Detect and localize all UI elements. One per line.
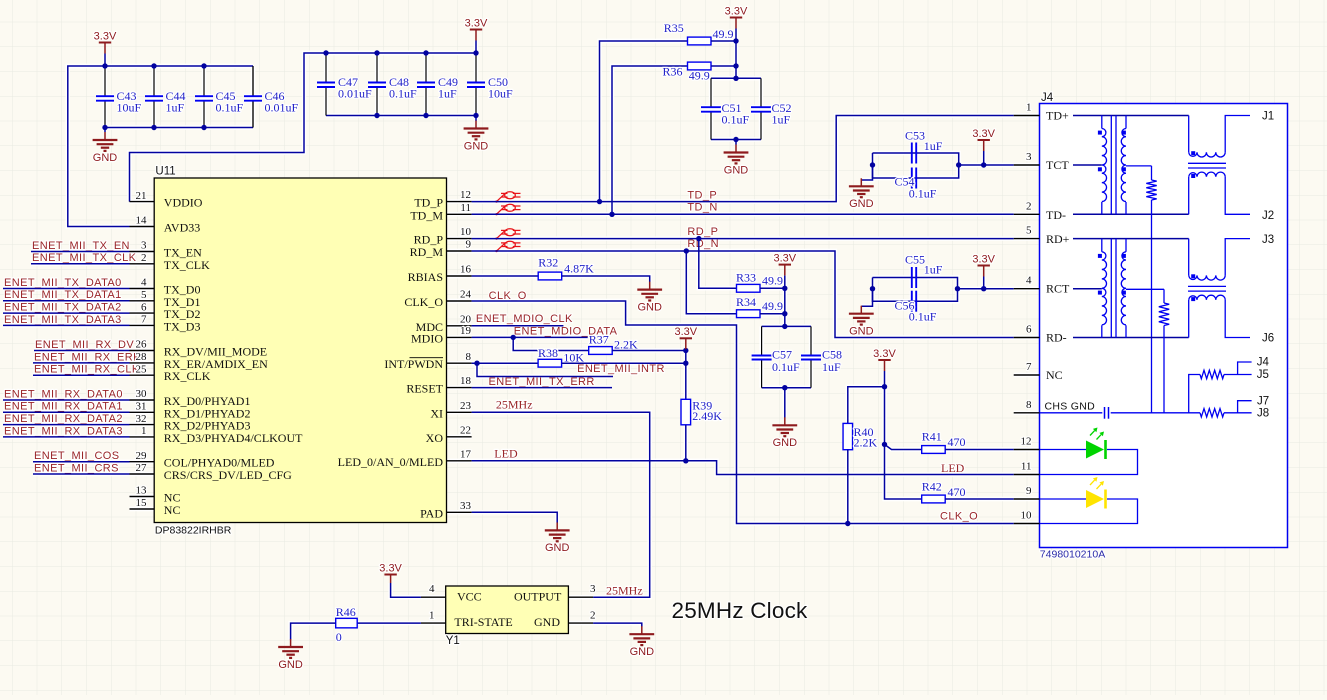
- svg-text:3: 3: [1026, 151, 1032, 163]
- choke L2 (RD) windings: [1188, 239, 1190, 276]
- U11 pin 5 TX_D1: [130, 300, 155, 302]
- svg-text:ENET_MII_TX_ERR: ENET_MII_TX_ERR: [489, 376, 595, 388]
- wire R36 right: [711, 65, 736, 67]
- Y1 pin 4 VCC: [421, 596, 446, 598]
- svg-text:5: 5: [1026, 225, 1032, 237]
- U11 pin 10 RD_P: [447, 238, 472, 240]
- J4 pin 3 stub: [1014, 164, 1040, 166]
- capacitor CHS GND internal: [1040, 412, 1102, 414]
- svg-text:0: 0: [336, 630, 342, 644]
- svg-text:1uF: 1uF: [166, 101, 185, 115]
- svg-text:TCT: TCT: [1046, 158, 1069, 172]
- Y1 pin 3 OUTPUT: [568, 596, 593, 598]
- svg-text:2: 2: [1026, 200, 1032, 212]
- svg-text:ENET_MII_RX_DATA2: ENET_MII_RX_DATA2: [4, 413, 123, 425]
- capacitor C56: [911, 291, 913, 312]
- U11 pin 25 RX_CLK: [130, 374, 155, 376]
- transformer T2 secondary winding: [1125, 239, 1127, 252]
- wire C53/C54 loop: [873, 153, 959, 178]
- svg-text:20: 20: [460, 313, 472, 325]
- svg-text:ENET_MII_RX_DATA3: ENET_MII_RX_DATA3: [4, 425, 123, 437]
- svg-text:8: 8: [1026, 399, 1032, 411]
- wire RD termination to CHS GND: [1163, 326, 1165, 413]
- wire TCT internal: [1073, 164, 1102, 166]
- wire 3.3V node to R40 top: [848, 387, 885, 424]
- U11 pin 20 MDC: [447, 325, 472, 327]
- wire ENET_MDIO_CLK: [472, 325, 564, 327]
- svg-text:25MHz Clock: 25MHz Clock: [672, 598, 809, 623]
- svg-text:R34: R34: [736, 295, 756, 309]
- LED D2 yellow: [1040, 498, 1087, 500]
- wire branch to J7: [1238, 401, 1252, 413]
- svg-text:J2: J2: [1262, 210, 1274, 222]
- wire pin8 to R38: [472, 362, 538, 364]
- svg-text:GND: GND: [534, 615, 560, 629]
- svg-text:TD_M: TD_M: [410, 208, 443, 222]
- svg-text:17: 17: [460, 448, 472, 460]
- svg-text:INT/PWDN: INT/PWDN: [384, 357, 443, 371]
- wire R36 left to TD_N: [612, 66, 688, 214]
- svg-text:GND: GND: [93, 152, 118, 164]
- differential-pair directive marker: [495, 229, 520, 240]
- svg-text:25MHz: 25MHz: [496, 398, 533, 412]
- svg-text:GND: GND: [464, 140, 489, 152]
- Y1 pin 1 TRI-STATE: [421, 622, 446, 624]
- choke L1 (TD) windings: [1188, 116, 1190, 153]
- wire node down to R39: [685, 351, 687, 400]
- U11 pin 17 LED_0/AN_0/MLED: [447, 460, 472, 462]
- svg-text:ENET_MII_RX_CLK: ENET_MII_RX_CLK: [34, 364, 140, 376]
- U11 pin 12 TD_P: [447, 201, 472, 203]
- svg-text:PAD: PAD: [420, 506, 443, 520]
- capacitor C43: [104, 66, 106, 96]
- wire 3.3V node down to C51/C52: [735, 41, 737, 78]
- svg-text:TX_CLK: TX_CLK: [164, 258, 210, 272]
- svg-text:10: 10: [460, 226, 472, 238]
- LED D1 green: [1040, 449, 1087, 451]
- svg-text:LED_0/AN_0/MLED: LED_0/AN_0/MLED: [338, 455, 444, 469]
- op-amp U11 DP83822IRHBR body: [154, 178, 446, 523]
- svg-text:R38: R38: [538, 346, 558, 360]
- svg-text:RBIAS: RBIAS: [408, 270, 443, 284]
- wire R38 right: [562, 362, 686, 364]
- svg-text:10uF: 10uF: [488, 87, 513, 101]
- U11 pin 6 TX_D2: [130, 312, 155, 314]
- wire - C43 bank bottom bus: [105, 127, 253, 129]
- wire RESET: [472, 387, 612, 389]
- power 3.3V at C50: [470, 29, 482, 31]
- resistor R39: [681, 399, 691, 425]
- transformer T1 primary winding: [1101, 116, 1103, 129]
- svg-text:TRI-STATE: TRI-STATE: [454, 615, 512, 629]
- svg-text:ENET_MII_COS: ENET_MII_COS: [34, 450, 120, 462]
- U11 pin 33 PAD: [447, 511, 472, 513]
- wire LED net (U11 pin17 to J4 pin11): [472, 461, 1014, 475]
- wire Y1 pin2 to GND: [593, 623, 642, 626]
- resistor R33: [737, 284, 761, 292]
- svg-text:4: 4: [429, 583, 435, 595]
- U11 pin 32 RX_D2/PHYAD3: [130, 424, 155, 426]
- svg-text:1uF: 1uF: [822, 360, 841, 374]
- wire Y1 VCC to 3.3V: [391, 583, 421, 597]
- capacitor C54: [911, 168, 913, 189]
- junction dots C55 block: [870, 286, 875, 291]
- svg-text:GND: GND: [545, 542, 570, 554]
- capacitor C50: [475, 53, 477, 83]
- wire RCT internal: [1073, 288, 1102, 290]
- svg-text:AVD33: AVD33: [164, 221, 200, 235]
- svg-text:J4: J4: [1257, 357, 1270, 369]
- svg-text:13: 13: [136, 485, 148, 497]
- svg-text:470: 470: [948, 435, 966, 449]
- svg-text:RCT: RCT: [1046, 282, 1070, 296]
- svg-text:RX_D3/PHYAD4/CLKOUT: RX_D3/PHYAD4/CLKOUT: [164, 431, 303, 445]
- ground GND below C43: [104, 128, 106, 133]
- wire RD_P branch to R33: [699, 239, 737, 289]
- wire + net label ENET_MII_RX_ERR: [33, 362, 130, 364]
- power 3.3V at RCT: [978, 265, 990, 267]
- U11 pin 23 XI: [447, 411, 472, 413]
- svg-text:VDDIO: VDDIO: [164, 196, 203, 210]
- svg-text:ENET_MII_TX_CLK: ENET_MII_TX_CLK: [32, 252, 137, 264]
- wire + net label ENET_MII_RX_DATA1: [3, 411, 130, 413]
- svg-text:XI: XI: [430, 406, 443, 420]
- svg-text:GND: GND: [630, 646, 655, 658]
- capacitor C47: [325, 53, 327, 83]
- wire RD_P net (U11 pin10 to J4 pin5): [472, 238, 1014, 240]
- svg-text:R46: R46: [336, 605, 356, 619]
- svg-text:VCC: VCC: [457, 589, 482, 603]
- svg-text:ENET_MII_RX_ERR: ENET_MII_RX_ERR: [34, 351, 141, 363]
- svg-text:49.9: 49.9: [762, 274, 783, 288]
- svg-text:R35: R35: [664, 21, 684, 35]
- wire J4/J5 network drop: [1189, 375, 1200, 413]
- svg-text:3.3V: 3.3V: [94, 30, 117, 42]
- U11 pin 30 RX_D0/PHYAD1: [130, 399, 155, 401]
- svg-text:1uF: 1uF: [924, 139, 943, 153]
- wire diagonal to R41: [885, 444, 922, 449]
- svg-text:1uF: 1uF: [772, 113, 791, 127]
- svg-text:49.9: 49.9: [762, 299, 783, 313]
- svg-text:RD-: RD-: [1046, 331, 1067, 345]
- wire RD+ internal: [1073, 238, 1189, 240]
- wire C57/C58 bottom bus: [762, 387, 811, 389]
- power 3.3V at R33/R34: [779, 264, 791, 266]
- svg-text:31: 31: [136, 401, 147, 413]
- resistor R34: [737, 310, 761, 318]
- resistor R37: [589, 347, 613, 355]
- svg-text:0.1uF: 0.1uF: [772, 360, 800, 374]
- svg-text:19: 19: [460, 325, 472, 337]
- svg-text:9: 9: [1026, 485, 1032, 497]
- svg-text:16: 16: [460, 264, 472, 276]
- wire R39 bottom to LED net: [685, 425, 687, 461]
- wire C55/C56 loop: [873, 278, 958, 302]
- svg-text:RD_P: RD_P: [687, 226, 718, 238]
- capacitor C49: [425, 53, 427, 83]
- J4 pin 12 stub: [1014, 449, 1040, 451]
- svg-text:7498010210A: 7498010210A: [1040, 549, 1105, 561]
- svg-text:6: 6: [141, 301, 147, 313]
- svg-text:TD_N: TD_N: [687, 202, 717, 214]
- wire RCT to J4 pin4: [958, 288, 1014, 290]
- wire R40 bottom to CLK_O: [847, 450, 849, 524]
- resistor R41: [922, 446, 946, 454]
- wire + net label ENET_MII_RX_DATA0: [3, 399, 130, 401]
- junction dots R35/R36 node: [733, 38, 738, 43]
- ground GND at PAD: [545, 522, 570, 541]
- svg-text:CRS/CRS_DV/LED_CFG: CRS/CRS_DV/LED_CFG: [164, 468, 292, 482]
- svg-text:R36: R36: [663, 65, 683, 79]
- ground GND at Y1 pin2: [629, 626, 654, 645]
- capacitor C58: [810, 326, 812, 355]
- transformer T2 core: [1110, 239, 1112, 338]
- resistor R36: [688, 62, 712, 70]
- U11 pin 11 TD_M: [447, 213, 472, 215]
- U11 pin 14 AVD33: [130, 226, 155, 228]
- wire RBIAS to R32: [472, 275, 539, 277]
- capacitor C45: [203, 66, 205, 96]
- wire C57/C58 top bus: [762, 325, 811, 327]
- transformer T1 secondary winding: [1125, 116, 1127, 129]
- svg-text:OUTPUT: OUTPUT: [514, 589, 562, 603]
- svg-text:11: 11: [1021, 461, 1032, 473]
- svg-text:RESET: RESET: [406, 382, 443, 396]
- J4 pin 10 stub: [1014, 523, 1040, 525]
- svg-text:CLK_O: CLK_O: [940, 511, 978, 523]
- wire - 3.3V rail to C43-C46 bank and AVD33: [68, 66, 253, 227]
- svg-text:10uF: 10uF: [117, 101, 142, 115]
- svg-text:TD-: TD-: [1046, 208, 1066, 222]
- svg-text:1: 1: [141, 425, 147, 437]
- svg-text:GND: GND: [278, 659, 303, 671]
- wire - C47-C50 top bus and left drop to VDDIO: [130, 53, 477, 202]
- svg-text:GND: GND: [773, 437, 798, 449]
- svg-text:0.1uF: 0.1uF: [909, 187, 937, 201]
- wire + net label ENET_MII_TX_DATA2: [3, 312, 130, 314]
- svg-text:J1: J1: [1262, 111, 1274, 123]
- differential-pair directive marker: [495, 204, 520, 215]
- U11 pin 18 RESET: [447, 387, 472, 389]
- resistor R32: [538, 272, 562, 280]
- U11 pin 3 TX_EN: [130, 251, 155, 253]
- svg-text:470: 470: [948, 485, 966, 499]
- svg-text:0.01uF: 0.01uF: [265, 101, 299, 115]
- resistor J7/J8 network: [1200, 409, 1224, 417]
- svg-text:3.3V: 3.3V: [773, 252, 796, 264]
- svg-text:1: 1: [429, 609, 435, 621]
- wire TD termination to CHS GND: [1151, 200, 1153, 413]
- svg-text:7: 7: [1026, 361, 1032, 373]
- J4 pin 4 stub: [1014, 288, 1040, 290]
- capacitor C51: [710, 78, 712, 107]
- differential-pair directive marker: [495, 241, 520, 252]
- wire TD_P net (U11 pin12 to J4 pin1): [472, 116, 1014, 202]
- svg-text:J6: J6: [1262, 333, 1274, 345]
- wire TD+ internal: [1073, 115, 1189, 117]
- oscillator Y1 body: [446, 586, 569, 634]
- J4 pin 8 stub: [1014, 412, 1040, 414]
- ground GND at C53/C54: [861, 165, 872, 180]
- svg-text:49.9: 49.9: [689, 69, 710, 83]
- svg-text:25MHz: 25MHz: [606, 584, 643, 598]
- wire RD_N net (U11 pin9 to J4 pin6): [472, 251, 1014, 338]
- wire ENET_MII_INTR stub: [477, 363, 613, 376]
- svg-text:6: 6: [1026, 324, 1032, 336]
- U11 pin 7 TX_D3: [130, 324, 155, 326]
- wire TD_N net (U11 pin11 to J4 pin2): [472, 213, 1014, 215]
- svg-text:TD+: TD+: [1046, 109, 1069, 123]
- svg-text:7: 7: [141, 314, 147, 326]
- capacitor C57: [761, 326, 763, 355]
- svg-text:XO: XO: [426, 431, 444, 445]
- resistor R46: [336, 618, 358, 628]
- svg-text:R41: R41: [922, 430, 942, 444]
- svg-text:0.1uF: 0.1uF: [216, 101, 244, 115]
- ground GND below C51/C52: [735, 140, 737, 145]
- wire C51/C52 bottom bus: [711, 139, 761, 141]
- ground GND at C55/C56: [861, 289, 872, 307]
- svg-text:CHS GND: CHS GND: [1045, 401, 1096, 413]
- U11 pin 27 CRS/CRS_DV/LED_CFG: [130, 473, 155, 475]
- svg-text:4: 4: [1026, 275, 1032, 287]
- capacitor C44: [153, 66, 155, 96]
- U11 pin 9 RD_M: [447, 250, 472, 252]
- net label layer: [4, 189, 978, 597]
- svg-text:ENET_MII_INTR: ENET_MII_INTR: [577, 363, 665, 375]
- capacitor C48: [376, 53, 378, 83]
- svg-text:29: 29: [136, 450, 148, 462]
- J4 pin 6 stub: [1014, 337, 1040, 339]
- svg-text:ENET_MII_CRS: ENET_MII_CRS: [34, 462, 119, 474]
- svg-text:3.3V: 3.3V: [972, 253, 995, 265]
- wire C51/C52 top bus: [711, 77, 761, 79]
- wire MDIO: [472, 336, 588, 338]
- svg-text:2: 2: [141, 252, 147, 264]
- wire - C47 bank bottom bus: [326, 115, 476, 117]
- svg-text:ENET_MDIO_CLK: ENET_MDIO_CLK: [476, 313, 573, 325]
- wire R37 right: [612, 350, 686, 352]
- svg-text:24: 24: [460, 289, 472, 301]
- transformer T2 primary winding: [1101, 239, 1103, 252]
- svg-text:3.3V: 3.3V: [379, 562, 402, 574]
- U11 pin 15 NC: [130, 508, 155, 510]
- power 3.3V at TCT: [978, 139, 990, 141]
- svg-text:2: 2: [590, 609, 596, 621]
- svg-text:1: 1: [1026, 102, 1032, 114]
- svg-text:NC: NC: [1046, 368, 1063, 382]
- power 3.3V at Y1: [384, 574, 396, 576]
- wire RD_N branch to R34: [686, 251, 736, 314]
- ground GND below C57/C58: [784, 388, 786, 418]
- svg-text:R37: R37: [589, 333, 609, 347]
- svg-text:25: 25: [136, 363, 148, 375]
- svg-text:3.3V: 3.3V: [465, 17, 488, 29]
- svg-text:TX_D3: TX_D3: [164, 319, 201, 333]
- wire down to R42: [885, 444, 922, 499]
- svg-text:3: 3: [590, 583, 596, 595]
- svg-text:R33: R33: [736, 270, 756, 284]
- wire R41 to J4 pin12: [945, 449, 1014, 451]
- svg-text:0.01uF: 0.01uF: [338, 87, 372, 101]
- svg-text:GND: GND: [724, 164, 749, 176]
- transformer T1 core: [1110, 116, 1112, 215]
- svg-text:LED: LED: [941, 461, 965, 475]
- svg-text:32: 32: [136, 413, 147, 425]
- svg-text:DP83822IRHBR: DP83822IRHBR: [155, 524, 232, 536]
- svg-text:2.2K: 2.2K: [854, 435, 878, 449]
- U11 pin 1 RX_D3/PHYAD4/CLKOUT: [130, 436, 155, 438]
- ground GND at R46: [278, 639, 303, 658]
- svg-text:15: 15: [136, 497, 148, 509]
- svg-text:J7: J7: [1257, 396, 1269, 408]
- resistor R38: [538, 359, 562, 367]
- svg-text:ENET_MII_TX_DATA2: ENET_MII_TX_DATA2: [4, 302, 122, 314]
- ground GND below C50: [475, 116, 477, 122]
- svg-text:12: 12: [460, 189, 471, 201]
- svg-text:ENET_MII_RX_DATA0: ENET_MII_RX_DATA0: [4, 388, 123, 400]
- svg-text:RD+: RD+: [1046, 232, 1070, 246]
- svg-text:ENET_MII_RX_DATA1: ENET_MII_RX_DATA1: [4, 401, 123, 413]
- U11 pin 22 XO: [447, 436, 472, 438]
- differential-pair directive marker: [495, 192, 520, 203]
- junction dots C53 block: [870, 162, 875, 167]
- svg-text:MDIO: MDIO: [411, 331, 443, 345]
- capacitor C55: [911, 267, 913, 288]
- svg-text:ENET_MII_TX_DATA0: ENET_MII_TX_DATA0: [4, 277, 122, 289]
- wire MDIO branch to R37: [513, 337, 589, 350]
- svg-text:TD_P: TD_P: [687, 189, 717, 201]
- svg-text:GND: GND: [849, 326, 874, 338]
- svg-text:2.2K: 2.2K: [614, 337, 638, 351]
- svg-text:28: 28: [136, 351, 148, 363]
- resistor R42: [922, 495, 946, 503]
- junction dots C43 bank: [102, 63, 107, 68]
- wire RD- internal: [1073, 337, 1189, 339]
- svg-text:0.1uF: 0.1uF: [909, 310, 937, 324]
- svg-text:4: 4: [141, 277, 147, 289]
- U11 pin 31 RX_D1/PHYAD2: [130, 411, 155, 413]
- svg-text:ENET_MII_TX_DATA3: ENET_MII_TX_DATA3: [4, 314, 122, 326]
- svg-text:3.3V: 3.3V: [873, 348, 896, 360]
- U11 pin 13 NC: [130, 496, 155, 498]
- svg-text:RX_CLK: RX_CLK: [164, 369, 211, 383]
- wire XI to oscillator output: [472, 412, 650, 597]
- svg-text:J3: J3: [1262, 234, 1274, 246]
- U11 pin 28 RX_ER/AMDIX_EN: [130, 362, 155, 364]
- J4 pin 5 stub: [1014, 238, 1040, 240]
- wire Y1 pin1 to R46: [357, 622, 421, 624]
- resistor TD termination: [1151, 166, 1153, 180]
- capacitor C53: [911, 143, 913, 164]
- wire T2 secondary center tap to termination: [1126, 288, 1164, 290]
- wire + net label ENET_MII_TX_CLK: [31, 263, 130, 265]
- wire + net label ENET_MII_RX_DATA3: [3, 436, 130, 438]
- wire + net label ENET_MII_RX_DATA2: [3, 424, 130, 426]
- svg-text:1uF: 1uF: [438, 87, 457, 101]
- svg-text:GND: GND: [637, 301, 662, 313]
- U11 pin 16 RBIAS: [447, 275, 472, 277]
- U11 pin 19 MDIO: [447, 336, 472, 338]
- svg-text:22: 22: [460, 424, 471, 436]
- wire R46 to GND: [291, 623, 336, 639]
- svg-text:C53: C53: [905, 129, 925, 143]
- resistor R40: [843, 423, 853, 449]
- power 3.3V at R37/R38 node: [680, 337, 692, 339]
- wire + net label ENET_MII_TX_DATA0: [3, 288, 130, 290]
- wire - C46 right verticals: [252, 66, 254, 96]
- svg-text:LED: LED: [494, 446, 518, 460]
